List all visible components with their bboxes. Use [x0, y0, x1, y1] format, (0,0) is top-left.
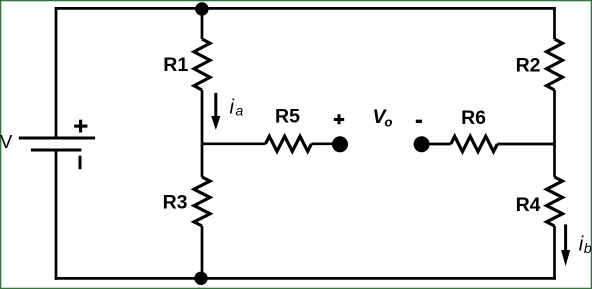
wire bottom rail	[55, 277, 556, 280]
current arrow i_a	[211, 93, 220, 130]
wire center branch (R3 to bottom node)	[201, 226, 204, 278]
junction dot (top node)	[195, 2, 208, 15]
voltage source V (battery)	[19, 138, 95, 150]
terminal dot + (Vo)	[332, 136, 348, 152]
svg-text:b: b	[584, 240, 592, 256]
svg-text:R4: R4	[516, 194, 541, 216]
wire center branch (R1 to middle node)	[201, 90, 204, 144]
current arrow i_b	[561, 224, 570, 266]
wire center branch (middle node to R3)	[201, 144, 204, 177]
resistor R2	[547, 39, 563, 90]
junction dot (bottom node)	[194, 272, 207, 285]
resistor R3	[194, 177, 210, 226]
battery - polarity mark	[79, 157, 82, 168]
terminal dot - (Vo)	[414, 136, 430, 152]
resistor R6	[451, 136, 498, 151]
svg-text:i: i	[230, 97, 235, 119]
wire right side (top corner to R2)	[553, 7, 556, 39]
svg-text:R5: R5	[275, 105, 300, 127]
wire R5 to + terminal	[312, 142, 341, 145]
wire center branch (top node to R1)	[201, 9, 204, 39]
terminal + polarity mark	[334, 114, 344, 124]
resistor R1	[194, 39, 210, 90]
wire - terminal to R6	[422, 143, 451, 146]
wire right side (R2 to R4)	[553, 90, 556, 177]
wire top rail	[55, 7, 556, 10]
wire left side (top corner down to battery)	[55, 7, 58, 138]
svg-text:a: a	[236, 102, 244, 118]
wire middle node to R5	[202, 142, 266, 145]
resistor R5	[266, 136, 312, 151]
svg-text:R2: R2	[516, 54, 541, 76]
wire R6 to right rail	[497, 143, 554, 146]
terminal - polarity mark	[416, 120, 422, 123]
svg-text:o: o	[385, 114, 393, 129]
wire right side (R4 to bottom corner)	[553, 226, 556, 280]
svg-text:R6: R6	[461, 107, 486, 129]
wire left side (battery down to bottom corner)	[55, 150, 58, 280]
svg-text:V: V	[0, 131, 13, 152]
svg-text:R1: R1	[163, 54, 188, 76]
svg-text:R3: R3	[163, 191, 188, 213]
resistor R4	[547, 177, 563, 226]
battery + polarity mark	[74, 120, 87, 133]
